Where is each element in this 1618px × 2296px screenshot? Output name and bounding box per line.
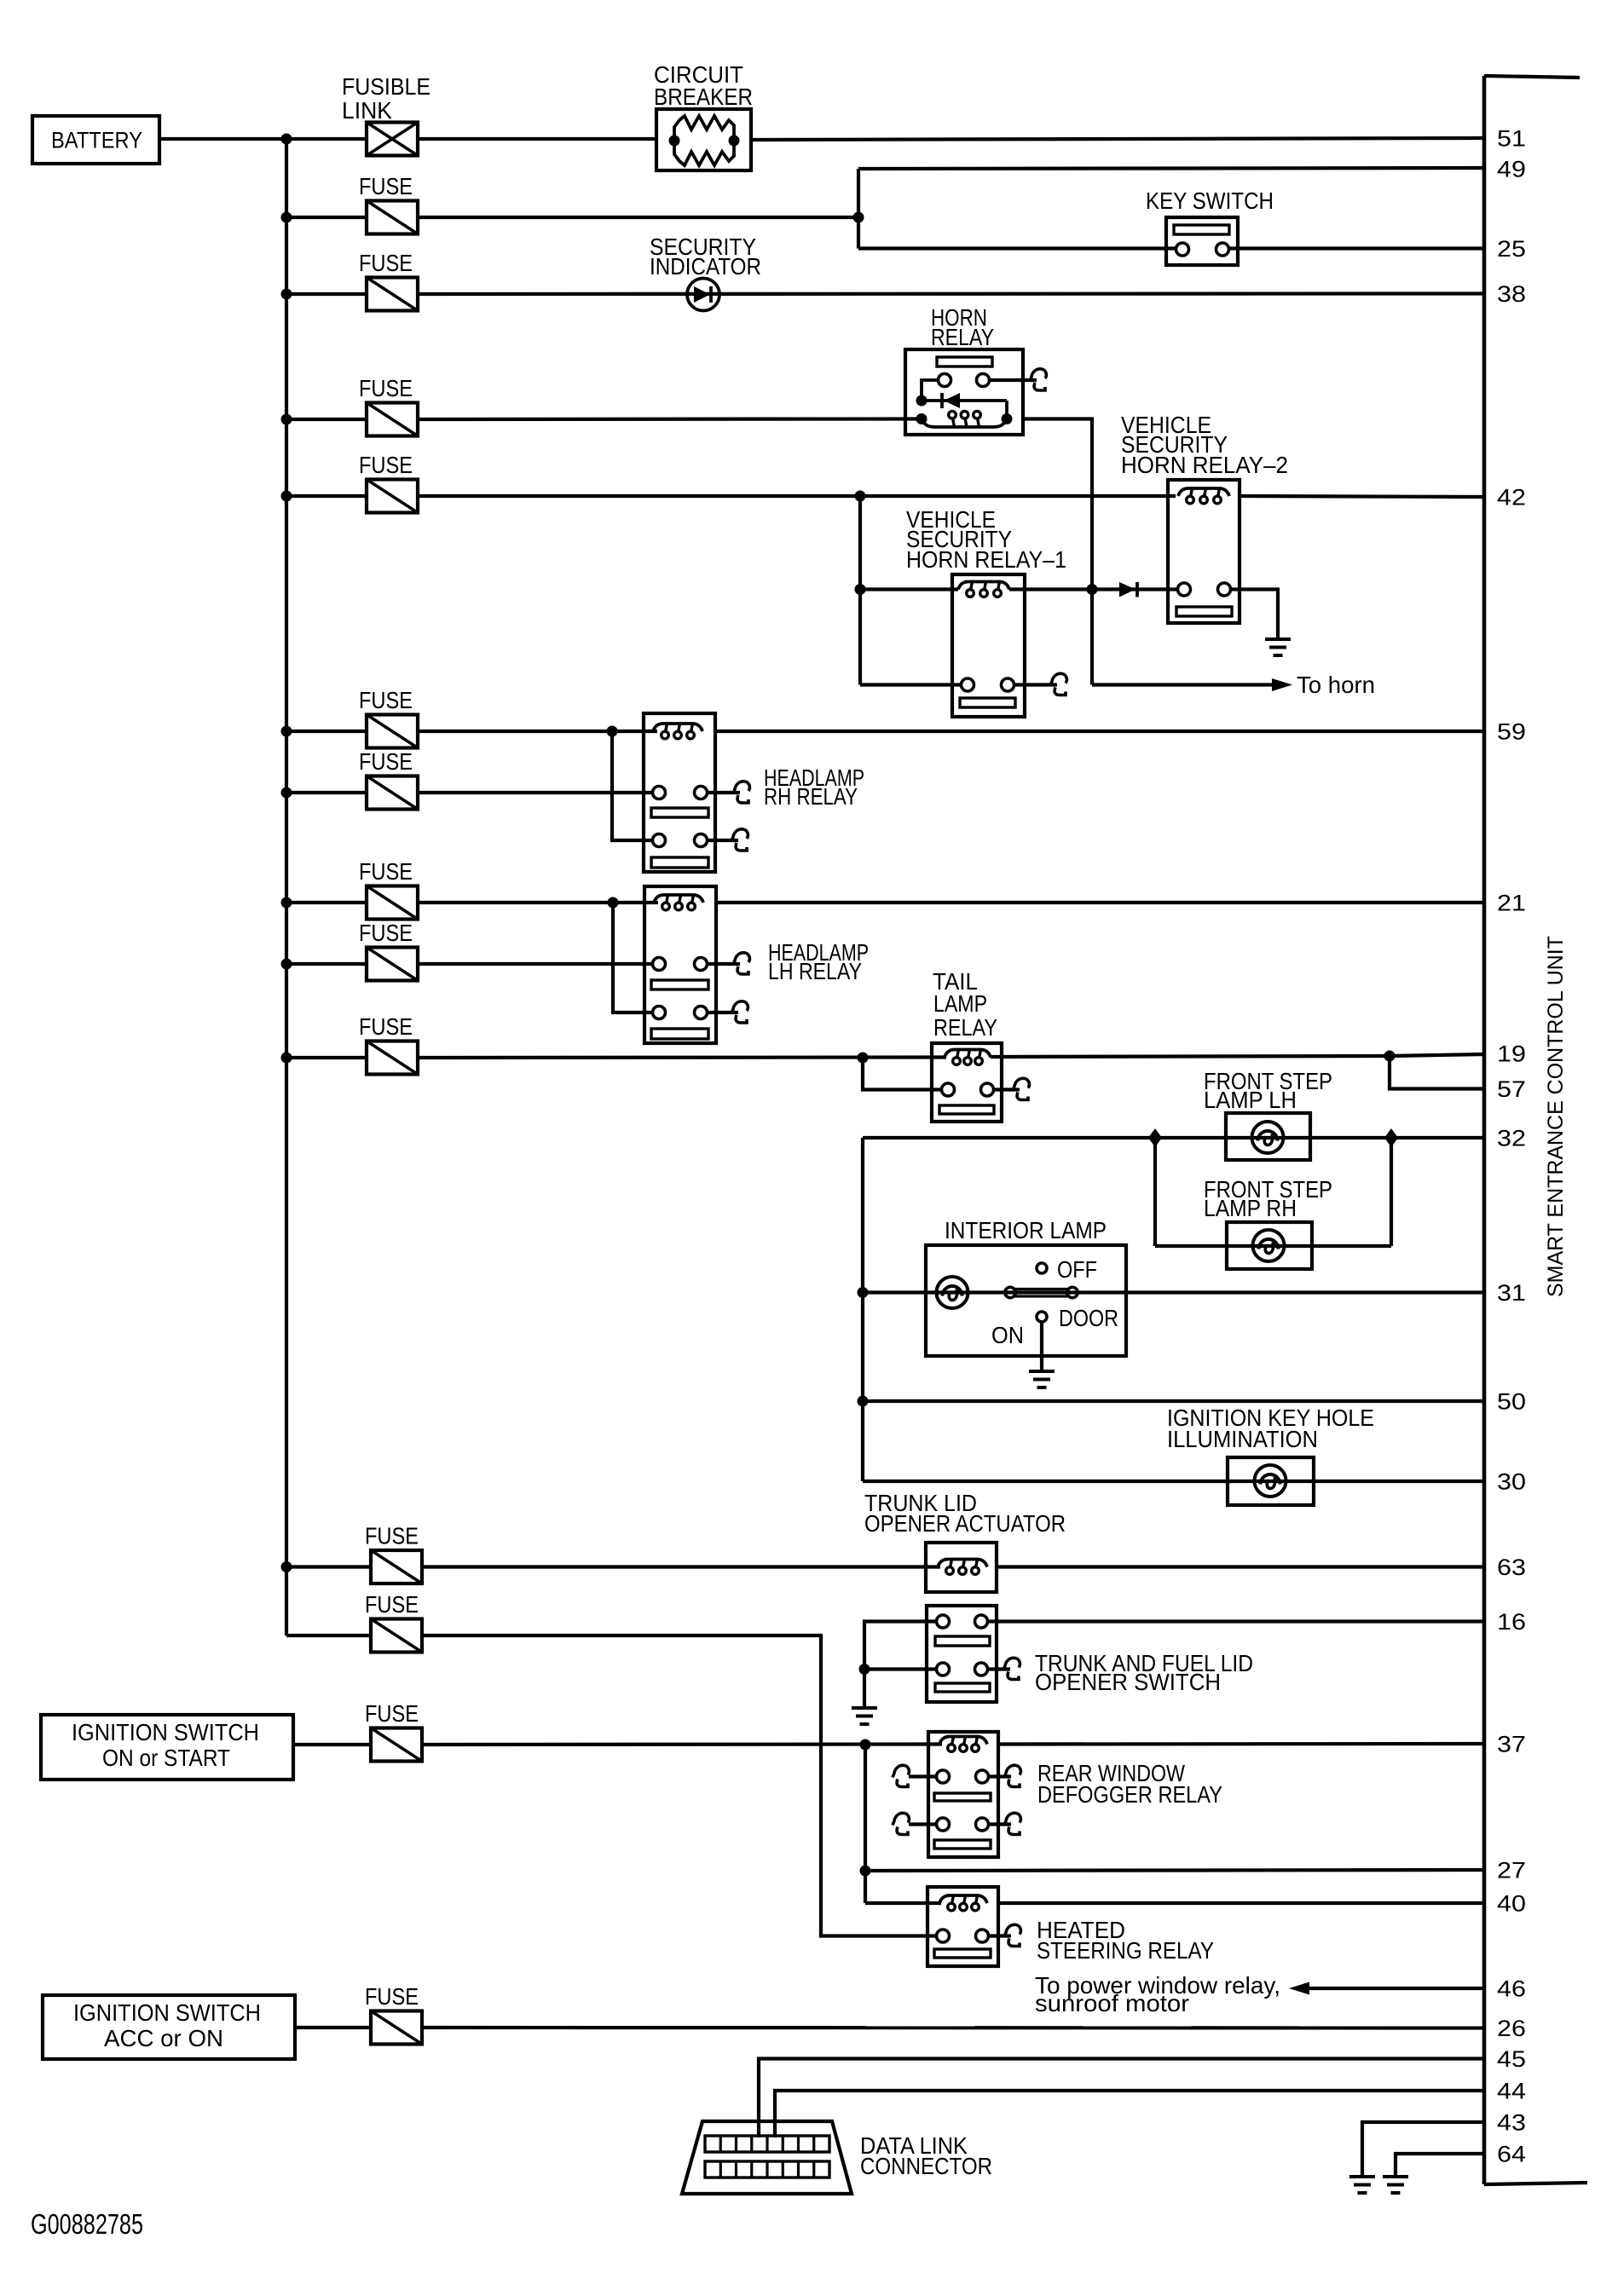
headlamp LH relay coil: [654, 895, 703, 903]
wire fuse F3 to horn relay: [418, 417, 922, 421]
node: interior lamp feed: [858, 1287, 869, 1298]
wire VSHR2 contact to ground: [1230, 590, 1278, 638]
switch lower contacts: [937, 1663, 950, 1676]
svg-text:ILLUMINATION: ILLUMINATION: [1167, 1426, 1318, 1452]
ground at pin 43: [1349, 2175, 1375, 2178]
wire tail relay contact output with pigtail: [993, 1087, 1020, 1091]
node: branch to LH relay lower contact: [608, 897, 619, 909]
heated steering bar: [934, 1949, 991, 1958]
data link connector J1 trapezoid: [682, 2121, 852, 2194]
svg-text:DOOR: DOOR: [1059, 1305, 1118, 1331]
wire front step lamp RH row: [1155, 1244, 1391, 1248]
svg-text:BATTERY: BATTERY: [51, 128, 142, 153]
wire bus to fuse F5: [286, 730, 367, 733]
node: bus junction row19: [281, 1053, 292, 1064]
node: bus junction horn fuse: [281, 414, 292, 425]
diode D3 (points right) to VSHR2 contact: [1092, 587, 1177, 591]
svg-text:G00882785: G00882785: [31, 2208, 143, 2240]
node: bus junction row49: [281, 212, 292, 223]
wire tail relay coil to pin 19: [991, 1056, 1390, 1057]
node: step lamp RH branch (diamond): [1384, 1128, 1398, 1147]
svg-text:LAMP RH: LAMP RH: [1204, 1195, 1297, 1221]
svg-text:FUSE: FUSE: [365, 1983, 419, 2010]
svg-text:FUSE: FUSE: [359, 250, 413, 276]
wire bus to fuse F6: [286, 791, 367, 794]
wire VSHR1 lower contacts feed: [860, 683, 962, 686]
wire fuse F11 down to heated steering relay contact: [422, 1635, 936, 1936]
svg-text:FUSE: FUSE: [365, 1700, 419, 1727]
wire fuse F9 to tail lamp relay: [418, 1055, 946, 1059]
wire branch down to relay-1 coil and contacts: [858, 496, 862, 685]
svg-text:44: 44: [1497, 2079, 1526, 2104]
svg-text:FUSE: FUSE: [359, 920, 413, 946]
interior lamp switch contacts: [1005, 1287, 1015, 1297]
svg-text:FUSE: FUSE: [359, 858, 413, 885]
wire step lamp right leg: [1390, 1138, 1393, 1246]
svg-text:LAMP: LAMP: [933, 990, 987, 1017]
svg-text:42: 42: [1497, 485, 1526, 511]
defogger contacts row2 with pigtails: [893, 1813, 909, 1825]
svg-text:BREAKER: BREAKER: [654, 84, 753, 110]
RH relay contacts row1: [653, 787, 666, 799]
ground at VSHR2: [1265, 637, 1291, 641]
wire row27 to pin 27: [865, 1870, 1484, 1871]
wire row30 to pin 30: [863, 1480, 1484, 1483]
interior lamp bus vertical: [861, 1138, 864, 1481]
svg-text:57: 57: [1497, 1076, 1526, 1102]
svg-text:FUSE: FUSE: [365, 1591, 419, 1618]
wire fuse F2 to security indicator: [418, 291, 1484, 296]
wire VSHR1 coil to horn junction: [1009, 587, 1092, 591]
VSHR1 bottom bar: [960, 698, 1015, 707]
node: branch pin19/57: [1384, 1051, 1396, 1062]
svg-text:IGNITION SWITCH: IGNITION SWITCH: [73, 1999, 261, 2026]
switch top contacts: [937, 1615, 950, 1628]
data link connector cells row2: [705, 2161, 829, 2178]
vehicle security horn relay-2 coil: [1178, 488, 1229, 496]
fuse F5: [367, 715, 418, 748]
wire fuse F6 to RH relay contact: [418, 791, 653, 794]
ground at interior lamp: [1029, 1370, 1055, 1373]
ground at opener switch: [852, 1706, 877, 1710]
wire defogger coil to pin 37: [998, 1742, 1484, 1746]
wire bus to fuse F9: [286, 1056, 367, 1059]
svg-text:27: 27: [1497, 1858, 1526, 1884]
headlamp LH relay K5 box: [644, 886, 716, 1043]
defogger contacts row1 with pigtails: [893, 1765, 909, 1777]
wire bus to fuse F1: [286, 216, 367, 219]
svg-text:SMART ENTRANCE CONTROL UNIT: SMART ENTRANCE CONTROL UNIT: [1544, 936, 1568, 1297]
node: bus junction RH contact fuse: [281, 787, 292, 799]
wire LH relay contact2 output with pigtail: [707, 1011, 738, 1014]
svg-text:ON: ON: [991, 1322, 1024, 1348]
svg-text:ACC or ON: ACC or ON: [104, 2025, 223, 2051]
defogger bar2: [934, 1840, 991, 1849]
svg-text:46: 46: [1497, 1976, 1526, 2002]
wire fuse F4 to vehicle security horn relay-2: [418, 494, 1176, 498]
svg-text:RH RELAY: RH RELAY: [764, 783, 858, 810]
svg-text:CONNECTOR: CONNECTOR: [860, 2153, 992, 2179]
svg-text:25: 25: [1497, 236, 1526, 262]
svg-text:DEFOGGER RELAY: DEFOGGER RELAY: [1037, 1781, 1222, 1808]
LH relay bar2: [651, 1029, 708, 1039]
wire branch to VSHR1 coil: [860, 587, 958, 591]
interior lamp box: [926, 1245, 1126, 1356]
wire RH relay contact1 output with pigtail: [707, 791, 740, 794]
node: horn relay diode anode: [916, 395, 927, 407]
tail relay contacts: [942, 1083, 955, 1096]
wire actuator to pin 63: [997, 1565, 1484, 1568]
rear window defogger relay K7 box: [928, 1732, 998, 1857]
svg-text:HORN RELAY–2: HORN RELAY–2: [1121, 452, 1288, 478]
wire horn relay coil output down to horn branch: [1023, 419, 1092, 685]
wire bus to fuse F3: [286, 418, 367, 421]
VSHR2 contacts: [1178, 583, 1191, 596]
RH relay bar2: [651, 857, 708, 868]
wire LH relay coil to pin 21: [716, 901, 1484, 904]
wire switch to pin 16: [987, 1619, 1484, 1623]
node: horn drive junction: [1087, 584, 1098, 595]
wire RH relay coil to pin 59: [715, 730, 1484, 733]
svg-text:43: 43: [1497, 2110, 1526, 2136]
svg-text:STEERING RELAY: STEERING RELAY: [1037, 1937, 1214, 1964]
node: branch to pins 49/25: [853, 212, 864, 223]
svg-text:16: 16: [1497, 1609, 1526, 1635]
wire VSHR2 coil to pin 42: [1240, 496, 1484, 497]
svg-text:45: 45: [1497, 2046, 1526, 2072]
svg-text:To horn: To horn: [1297, 672, 1375, 698]
OFF contact: [1037, 1263, 1047, 1273]
front step lamp LH bulb: [1252, 1122, 1284, 1153]
svg-text:KEY SWITCH: KEY SWITCH: [1146, 187, 1274, 214]
tail lamp relay box: [932, 1043, 1002, 1122]
bus vertical from battery: [285, 139, 288, 1635]
svg-text:OPENER ACTUATOR: OPENER ACTUATOR: [864, 1510, 1066, 1537]
svg-text:32: 32: [1497, 1126, 1526, 1151]
wire fuse F1 to branch node: [418, 216, 858, 219]
wire heated steering coil to pin 40: [998, 1901, 1484, 1905]
node: branch to tail relay contact: [858, 1053, 869, 1064]
data link connector cells row1: [705, 2136, 829, 2152]
wire bus bottom corner to fuse F11: [286, 1634, 371, 1637]
LH relay contacts row2: [653, 1007, 666, 1019]
ground at pin 64: [1383, 2175, 1408, 2178]
defogger relay coil: [939, 1737, 987, 1745]
svg-text:FUSE: FUSE: [359, 748, 413, 775]
svg-text:59: 59: [1497, 719, 1526, 745]
wire LH relay contact1 output with pigtail: [707, 962, 740, 966]
wire fuse F7 to headlamp LH relay coil: [418, 901, 658, 904]
svg-text:FUSE: FUSE: [359, 1013, 413, 1040]
svg-text:51: 51: [1497, 126, 1526, 152]
svg-text:RELAY: RELAY: [933, 1014, 997, 1041]
node: step lamp LH branch (diamond): [1148, 1128, 1162, 1147]
svg-text:37: 37: [1497, 1732, 1526, 1757]
wire fuse F8 to LH relay contact: [418, 962, 653, 966]
front step lamp RH bulb: [1253, 1230, 1285, 1261]
LH relay bar1: [651, 980, 708, 989]
key switch SW1: [1166, 217, 1238, 265]
RH relay contacts row2: [653, 834, 666, 847]
trunk and fuel lid opener switch box: [927, 1606, 997, 1702]
node: bus junction row63: [281, 1561, 292, 1572]
trunk lid opener actuator box: [926, 1543, 997, 1592]
ignition switch ON or START box: [41, 1715, 293, 1780]
node: bus junction row59: [281, 726, 292, 737]
node: bus junction row42: [281, 491, 292, 502]
switch bar2: [935, 1683, 990, 1692]
heated steering contacts: [937, 1930, 950, 1942]
wire lower contact output with pigtail: [987, 1667, 1010, 1670]
ignition key hole illumination box: [1228, 1457, 1314, 1505]
wire data link to pin 45: [759, 2059, 1484, 2138]
interior lamp switch blade: [1015, 1289, 1067, 1297]
ignition switch ACC or ON box: [43, 1995, 295, 2059]
svg-text:FUSE: FUSE: [359, 452, 413, 478]
wire row51 bus to fusible link: [286, 137, 367, 141]
node: bus-battery junction: [281, 134, 292, 145]
wire VSHR1 contact output with pigtail: [1014, 683, 1057, 686]
wire bus to fuse F8: [286, 962, 367, 966]
interior lamp bulb: [937, 1277, 968, 1308]
tail lamp relay coil: [945, 1050, 991, 1058]
heated steering relay coil: [939, 1895, 987, 1903]
DOOR contact: [1037, 1312, 1047, 1322]
node: switch ground junction: [859, 1664, 870, 1675]
defogger bar1: [934, 1793, 991, 1801]
fuse F12: [371, 1728, 422, 1762]
wire key switch to pin 25: [1238, 246, 1484, 250]
fuse F3: [367, 403, 418, 436]
circuit breaker CB1: [656, 109, 751, 170]
wire row32 from interior-lamp bus to pin 32: [863, 1136, 1484, 1139]
fuse F9: [367, 1041, 418, 1075]
wire step lamp left leg: [1153, 1138, 1157, 1246]
wire DOOR contact to ground: [1040, 1322, 1043, 1370]
svg-text:63: 63: [1497, 1555, 1526, 1580]
svg-text:LAMP LH: LAMP LH: [1204, 1087, 1297, 1113]
fuse F4: [367, 480, 418, 513]
VSHR2 bottom bar: [1176, 607, 1232, 616]
wire horn relay contact output with pigtail: [989, 378, 1037, 382]
heated steering relay K8 box: [927, 1887, 998, 1966]
headlamp RH relay coil: [653, 724, 702, 731]
svg-text:31: 31: [1497, 1280, 1526, 1306]
svg-text:IGNITION SWITCH: IGNITION SWITCH: [72, 1719, 259, 1745]
wire circuit breaker to pin 51: [751, 138, 1484, 140]
wire data link to pin 44: [775, 2091, 1484, 2137]
wire heated steering contact output with pigtail: [988, 1934, 1011, 1937]
svg-text:INDICATOR: INDICATOR: [650, 253, 761, 280]
svg-text:38: 38: [1497, 281, 1526, 307]
svg-text:RELAY: RELAY: [931, 324, 994, 350]
wire RH relay contact2 output with pigtail: [707, 839, 738, 842]
ignition key hole illumination bulb: [1255, 1465, 1286, 1497]
front step lamp RH box: [1227, 1222, 1312, 1269]
wire to lower contacts: [864, 1667, 937, 1670]
connector: smart entrance control unit outline: [1482, 76, 1487, 2184]
node: row27 junction: [860, 1866, 871, 1877]
wire branch down rows 27/40: [864, 1745, 867, 1903]
switch bar1: [935, 1636, 990, 1646]
wire ignition box to fuse F12: [293, 1743, 371, 1746]
LH relay contacts row1: [653, 958, 666, 971]
VSHR1 contacts: [962, 678, 974, 691]
node: branch to horn relay-1: [855, 491, 866, 502]
node: branch to RH relay lower contact: [607, 726, 618, 737]
wire fusible link to circuit breaker: [418, 137, 656, 141]
svg-text:HORN RELAY–1: HORN RELAY–1: [906, 546, 1066, 573]
horn relay coil: [922, 419, 1007, 428]
RH relay bar1: [651, 808, 708, 817]
svg-text:LH RELAY: LH RELAY: [768, 958, 862, 984]
wire branch to key switch: [858, 246, 1176, 250]
svg-text:OFF: OFF: [1057, 1256, 1097, 1283]
fuse F1: [367, 201, 418, 234]
wire pin 43 to ground: [1362, 2122, 1484, 2176]
wire bus to fuse F2: [286, 292, 367, 296]
wire branch to pin 57: [1390, 1056, 1484, 1089]
svg-text:FUSE: FUSE: [365, 1523, 419, 1549]
wire fuse F12 to defogger relay coil and pin 37: [422, 1742, 942, 1746]
fusible link FL1: [367, 123, 418, 156]
wire bus to fuse F7: [286, 901, 367, 904]
node: bus junction row21: [281, 897, 292, 909]
battery box: [32, 116, 159, 164]
wire pin 64 to ground: [1396, 2154, 1484, 2176]
fuse F13: [371, 2011, 422, 2045]
fuse F11: [371, 1619, 422, 1653]
wire fuse F13 to pin 26: [422, 2026, 1484, 2030]
trunk lid opener actuator coil: [938, 1560, 987, 1567]
svg-text:ON or START: ON or START: [102, 1745, 230, 1771]
fuse F2: [367, 278, 418, 311]
front step lamp LH box: [1226, 1113, 1310, 1160]
wire to horn with arrow: [1092, 683, 1274, 686]
wire ignition ACC box to fuse F13: [295, 2026, 371, 2029]
node: horn relay coil right: [1002, 413, 1013, 424]
wire pin 46 to power window relay arrow: [1299, 1987, 1484, 1990]
wire battery to bus: [159, 137, 286, 141]
svg-text:64: 64: [1497, 2142, 1526, 2167]
svg-text:21: 21: [1497, 891, 1526, 916]
diode D2 in horn relay (points left): [922, 399, 1007, 402]
svg-text:LINK: LINK: [342, 97, 392, 124]
wire horn relay left contact to coil node: [922, 380, 938, 401]
wire row31 through interior lamp to pin 31: [863, 1290, 1484, 1294]
wire switch left contact to ground branch: [864, 1622, 937, 1707]
svg-text:26: 26: [1497, 2016, 1526, 2041]
node: branch to row 27/40: [860, 1739, 871, 1751]
node: horn relay coil left: [916, 413, 927, 424]
wire diode to coil right node: [1005, 401, 1008, 419]
fuse F10: [371, 1550, 422, 1584]
fuse F7: [367, 886, 418, 920]
tail relay bar: [939, 1105, 994, 1114]
svg-text:OPENER SWITCH: OPENER SWITCH: [1035, 1669, 1221, 1695]
wire bus to fuse F10: [286, 1565, 371, 1568]
wire row50 to pin 50: [863, 1399, 1484, 1403]
svg-text:40: 40: [1497, 1891, 1526, 1917]
svg-text:49: 49: [1497, 157, 1526, 182]
node: row50 junction: [858, 1396, 869, 1407]
svg-text:FUSE: FUSE: [359, 375, 413, 401]
wire fuse F10 to trunk lid opener actuator: [422, 1565, 940, 1568]
svg-text:sunroof motor: sunroof motor: [1035, 1990, 1189, 2016]
node: bus junction row38: [281, 289, 292, 300]
svg-text:50: 50: [1497, 1389, 1526, 1415]
svg-text:INTERIOR LAMP: INTERIOR LAMP: [945, 1217, 1107, 1243]
svg-text:FUSIBLE: FUSIBLE: [342, 73, 431, 100]
svg-text:30: 30: [1497, 1469, 1526, 1495]
wire fuse F5 to headlamp RH relay coil: [418, 730, 657, 733]
fuse F6: [367, 776, 418, 810]
svg-text:FUSE: FUSE: [359, 173, 413, 199]
node: bus junction LH contact fuse: [281, 959, 292, 970]
wire bus to fuse F4: [286, 494, 367, 498]
vehicle security horn relay-1 coil: [958, 582, 1009, 590]
wire corner to heated steering relay coil: [865, 1901, 941, 1905]
wire branch to pin 49: [858, 168, 1484, 169]
svg-text:19: 19: [1497, 1041, 1526, 1067]
svg-text:FUSE: FUSE: [359, 687, 413, 713]
fuse F8: [367, 948, 418, 981]
headlamp RH relay K4 box: [644, 713, 715, 872]
